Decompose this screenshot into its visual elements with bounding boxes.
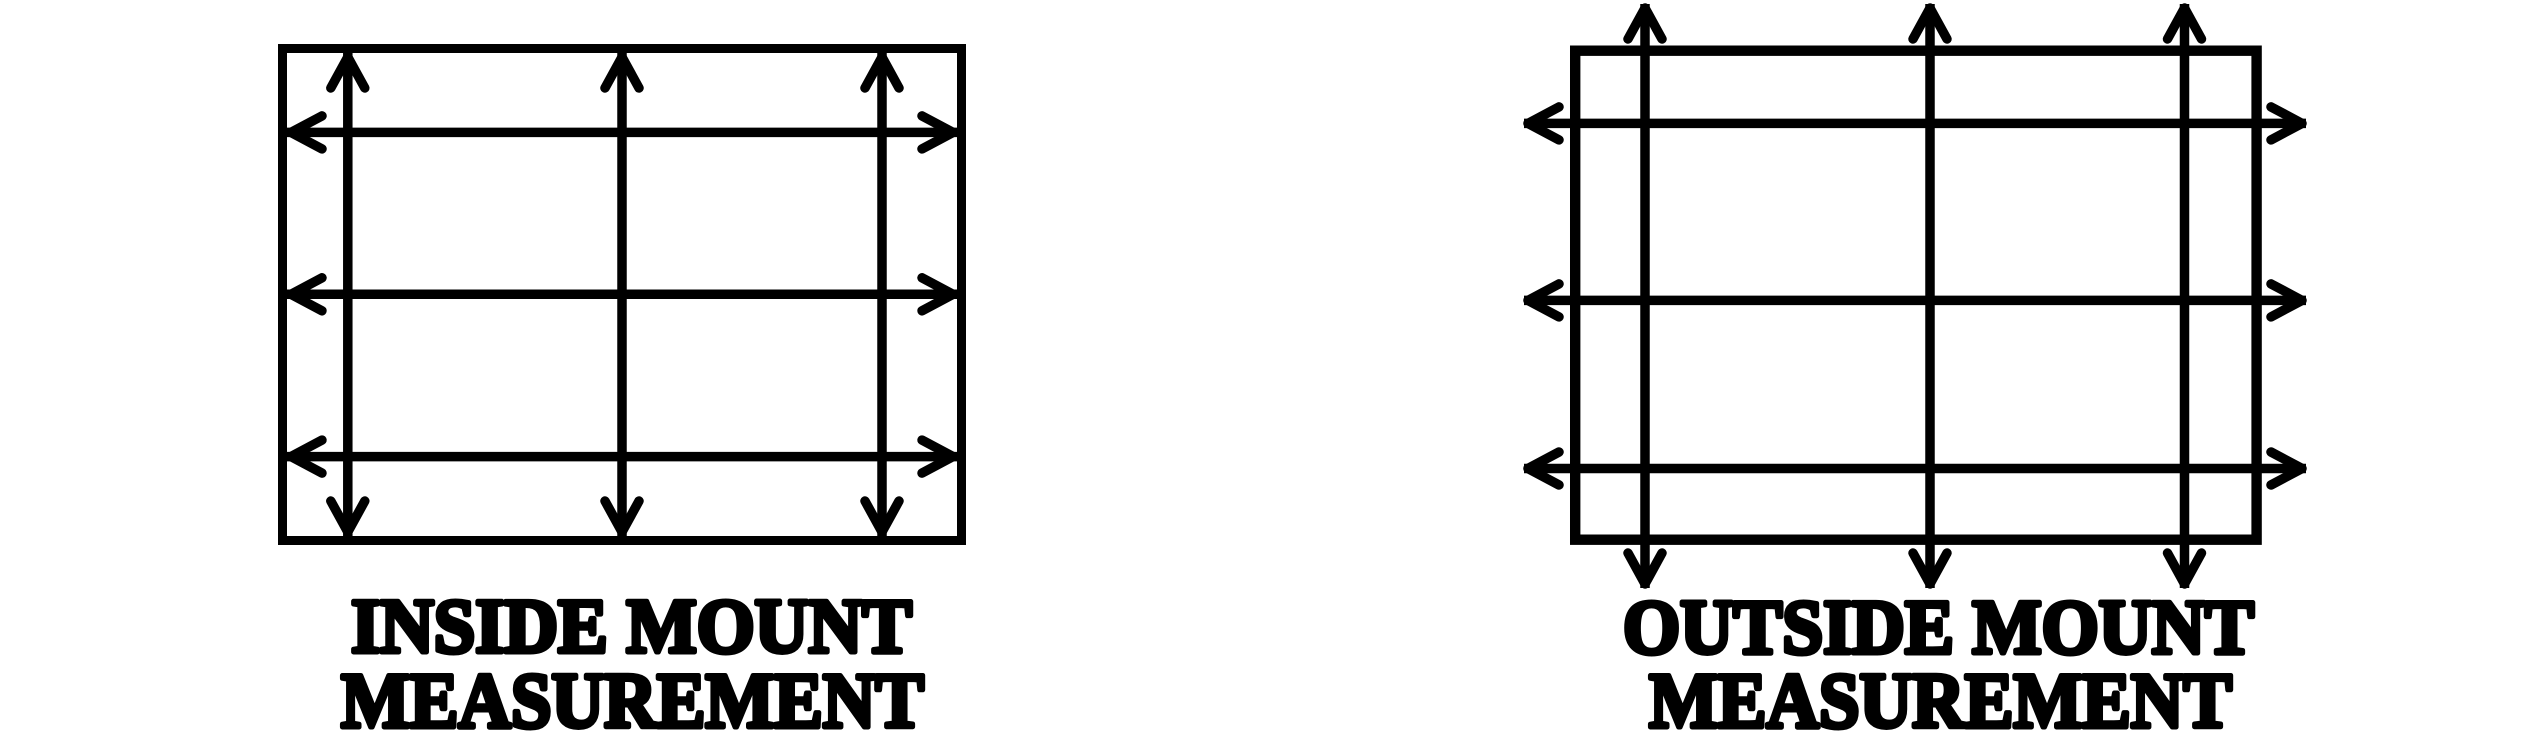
horizontal width arrow H3, outside mount bbox=[1524, 452, 2306, 485]
vertical height arrow V2, inside mount bbox=[605, 53, 639, 536]
window frame (outside mount) bbox=[1575, 51, 2256, 540]
vertical height arrow V3, inside mount bbox=[865, 53, 899, 536]
horizontal width arrow H2, outside mount bbox=[1524, 284, 2306, 317]
horizontal width arrow H2, inside mount bbox=[287, 278, 957, 311]
vertical height arrow V3, outside mount bbox=[2168, 4, 2202, 588]
vertical height arrow V1, inside mount bbox=[331, 53, 365, 536]
horizontal width arrow H1, inside mount bbox=[287, 116, 957, 149]
horizontal width arrow H3, inside mount bbox=[287, 440, 957, 473]
vertical height arrow V1, outside mount bbox=[1628, 4, 1662, 588]
svg-text:MEASUREMENT: MEASUREMENT bbox=[341, 657, 924, 731]
horizontal width arrow H1, outside mount bbox=[1524, 107, 2306, 140]
vertical height arrow V2, outside mount bbox=[1913, 4, 1947, 588]
svg-text:MEASUREMENT: MEASUREMENT bbox=[1649, 657, 2232, 731]
window frame (inside mount) bbox=[283, 49, 962, 541]
